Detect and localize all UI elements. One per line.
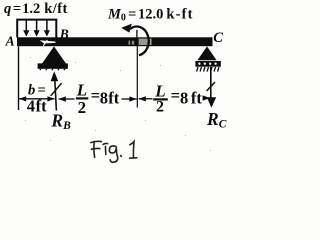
svg-text:q=1.2k/ft: q=1.2k/ft: [4, 1, 68, 17]
tick through RB shaft: [51, 83, 62, 96]
rollers (white circles): [198, 63, 217, 65]
beam scan streak diagonal: [43, 40, 47, 46]
svg-text:A: A: [5, 34, 15, 49]
dimension L/2 right segment: right arrowhead: [203, 95, 210, 100]
support C ground hatching: [197, 67, 219, 72]
svg-text:=8ft: =8ft: [171, 86, 203, 107]
label L/2 (second): [153, 82, 168, 116]
caption 1: [130, 142, 134, 158]
dimension L/2 left segment lines: [59, 98, 75, 100]
beam light patch at moment: [139, 39, 152, 46]
svg-text:B: B: [59, 26, 69, 41]
midspan mark above beam: [136, 30, 138, 38]
Fig. 1 caption (handwritten): [91, 141, 137, 162]
caption i: [103, 142, 108, 145]
background paper: [0, 0, 234, 168]
scan speckles: [25, 57, 211, 151]
svg-text:L: L: [76, 80, 87, 99]
dimension b left arrowhead: [19, 96, 26, 101]
ghost marks in beam: [129, 41, 135, 45]
dimension b right arrowhead: [47, 96, 54, 101]
midspan extension line: [136, 46, 138, 107]
roller bar: [195, 61, 220, 67]
extension line at A: [18, 47, 20, 111]
dimension line b segment: [19, 98, 55, 100]
caption period: [120, 155, 123, 158]
dimension L/2 left segment: right arrowhead: [129, 96, 136, 101]
tick through RC shaft: [207, 82, 215, 91]
dimension L/2 right segment: left arrowhead: [139, 96, 146, 101]
beam scan streak near B: [40, 40, 56, 43]
moment arc: [130, 27, 149, 56]
svg-text:2: 2: [78, 98, 87, 117]
caption g: [109, 146, 117, 162]
support B ground bar: [38, 63, 68, 68]
pin support B triangle: [42, 46, 66, 63]
svg-text:2: 2: [156, 98, 164, 115]
support B ground hatching: [40, 69, 65, 71]
dimension L/2 left segment: left arrowhead: [59, 96, 66, 101]
caption F: [91, 141, 102, 142]
svg-text:=8ft: =8ft: [91, 86, 120, 107]
beam: [17, 37, 213, 46]
svg-text:4ft: 4ft: [27, 97, 47, 116]
load arrow 3: [44, 21, 50, 37]
reaction RC arrow: [207, 67, 216, 108]
svg-text:M0=12.0k-ft: M0=12.0k-ft: [107, 6, 194, 23]
roller support C triangle: [197, 46, 216, 60]
distributed load outline: [17, 20, 56, 38]
dimension L/2 right segment lines: [139, 98, 153, 100]
svg-text:C: C: [213, 30, 223, 46]
label L/2 (first): [76, 80, 89, 117]
load arrow 1: [23, 21, 29, 37]
load arrow 2: [34, 21, 40, 37]
moment arrowhead: [121, 24, 132, 33]
reaction RB arrow: [51, 71, 59, 110]
